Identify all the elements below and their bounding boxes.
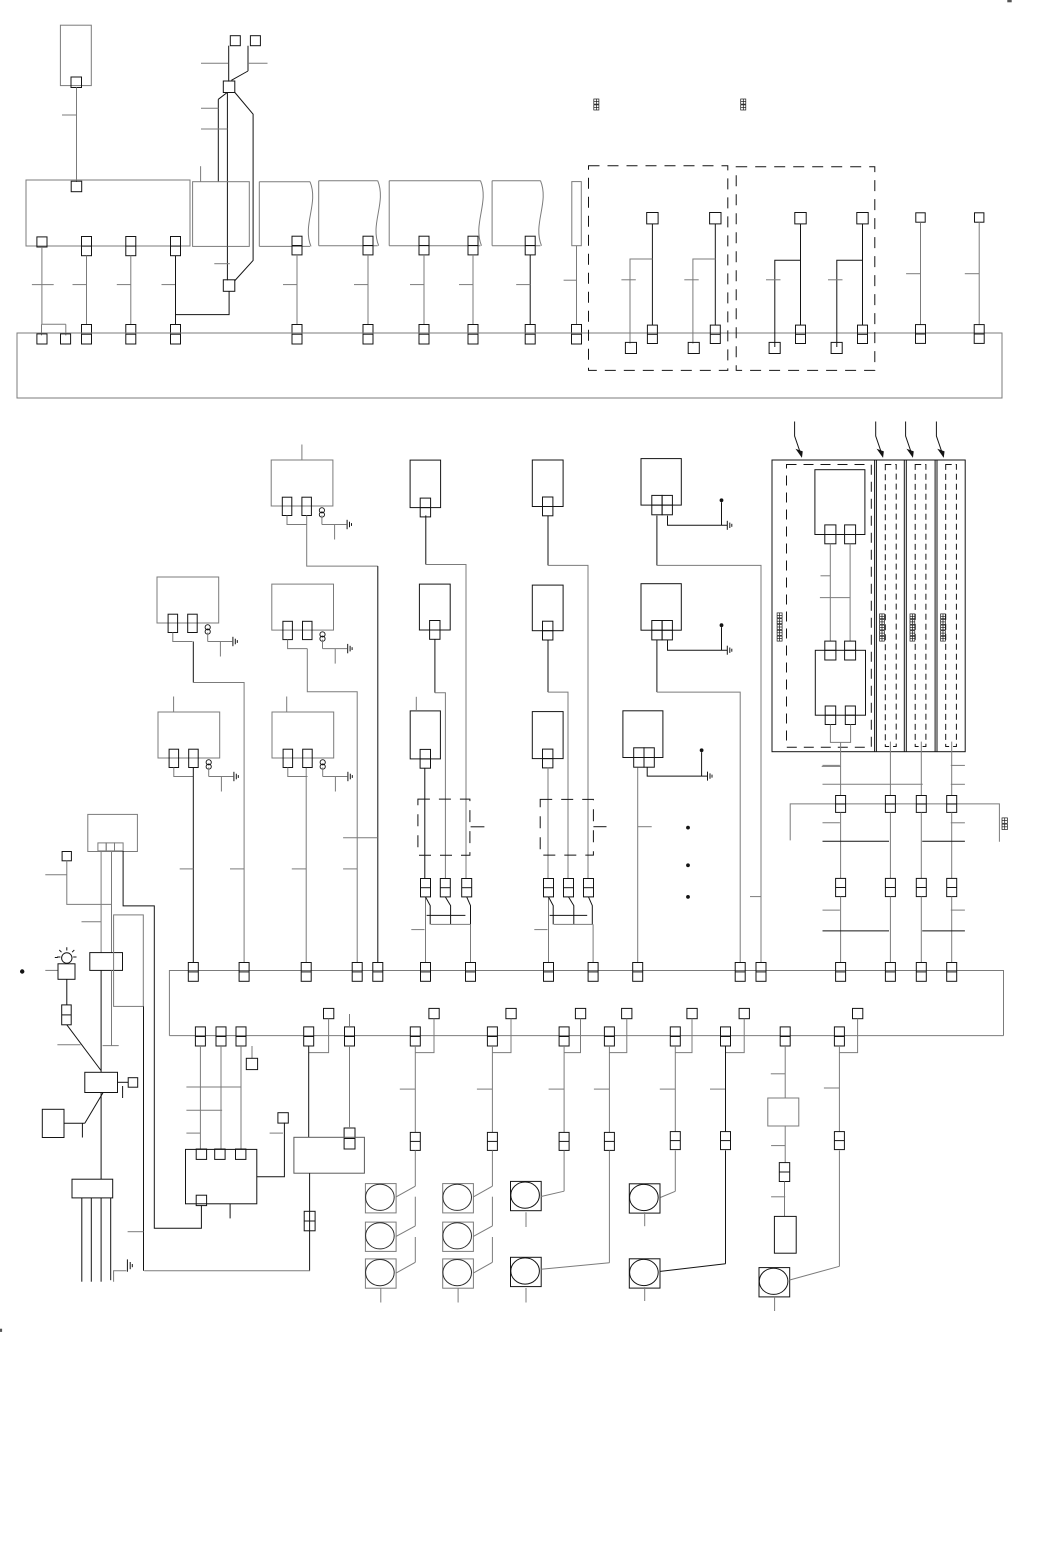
wire (550, 914, 588, 916)
box C1 (641, 459, 681, 506)
dot (700, 748, 704, 752)
label (741, 99, 746, 104)
terminal (126, 325, 136, 345)
wire (176, 291, 230, 314)
wire (491, 1150, 493, 1186)
breaker (584, 879, 594, 897)
wire (192, 768, 194, 963)
wire (349, 1014, 351, 1027)
wire (593, 826, 606, 828)
box panel6 (492, 180, 540, 182)
wire (175, 256, 177, 325)
terminal (215, 1149, 225, 1159)
motor M11 (759, 1268, 790, 1297)
terminal (831, 342, 842, 353)
wire (656, 516, 658, 566)
wire (220, 1046, 222, 1149)
terminal bus2 (188, 963, 198, 982)
terminal bus3 (216, 1027, 226, 1046)
terminal bus3 (604, 1027, 614, 1046)
divider (903, 460, 905, 752)
tick (828, 279, 843, 281)
wire (630, 259, 652, 344)
tick (459, 284, 473, 286)
terminal (363, 236, 373, 255)
terminal bus3 (721, 1027, 731, 1046)
tick (117, 284, 131, 286)
tick (549, 1088, 565, 1090)
terminal bus3 (559, 1027, 569, 1046)
bar (922, 930, 965, 932)
wire (837, 260, 863, 347)
wire (784, 1126, 786, 1163)
node tap (128, 1078, 138, 1088)
wire (492, 1019, 511, 1053)
wire (674, 1150, 676, 1191)
wire (66, 979, 68, 1005)
tick (180, 868, 194, 870)
label (1002, 818, 1007, 823)
box panel5 (389, 180, 480, 182)
wire (64, 1122, 85, 1124)
node tap (622, 1008, 632, 1018)
box cabinet (114, 915, 144, 1007)
box riser (572, 182, 582, 246)
box B1 (410, 460, 441, 508)
wire (554, 923, 593, 925)
transformer T2 (157, 577, 219, 623)
box unit lower (815, 650, 865, 715)
switch blade (473, 1262, 492, 1273)
motor (443, 1184, 474, 1213)
wire (414, 1046, 416, 1132)
wire (307, 649, 357, 963)
terminal (825, 525, 836, 544)
wire (110, 1198, 112, 1280)
box B5 (532, 585, 563, 631)
wire (721, 502, 723, 525)
wire (889, 812, 891, 878)
tick (400, 1088, 416, 1090)
terminal (468, 236, 478, 255)
node tap (251, 1046, 253, 1058)
tick (951, 783, 965, 785)
wire (467, 897, 471, 925)
tick (951, 909, 965, 911)
wire (193, 683, 244, 963)
label (910, 614, 915, 619)
terminal bus3 (410, 1027, 420, 1046)
terminal (825, 706, 836, 725)
wire (547, 767, 549, 878)
arrow (906, 422, 913, 457)
terminal bus3 (236, 1027, 246, 1046)
switch blade (396, 1186, 416, 1197)
terminal bus3 (487, 1027, 497, 1046)
tick (201, 128, 227, 130)
wire (424, 768, 426, 879)
motor M8 (511, 1257, 542, 1286)
wire (423, 255, 425, 325)
tick (343, 837, 378, 839)
terminal (836, 878, 846, 896)
terminal (858, 325, 868, 343)
tick (410, 284, 424, 286)
wire (564, 1019, 580, 1053)
terminal (98, 843, 106, 851)
wire (426, 565, 466, 879)
bus aux (790, 804, 999, 842)
bar (922, 840, 965, 842)
tick (750, 896, 761, 898)
terminal bus2 (735, 963, 745, 982)
terminal (710, 325, 720, 343)
tick (594, 1088, 610, 1090)
wire (491, 1046, 493, 1132)
terminal (795, 213, 806, 224)
box C2 (641, 584, 681, 631)
wire (308, 1046, 310, 1137)
tick (354, 284, 368, 286)
wire (380, 1288, 382, 1302)
wire (100, 1093, 102, 1180)
wire (217, 99, 219, 181)
motor M9 (629, 1184, 660, 1213)
wire (414, 1197, 416, 1226)
wire (111, 851, 113, 953)
wire (257, 1123, 285, 1177)
tick (162, 284, 176, 286)
terminal (796, 325, 806, 343)
terminal (857, 213, 868, 224)
terminal (292, 236, 302, 255)
wire (307, 515, 378, 566)
terminal (885, 878, 895, 896)
wire (701, 752, 703, 776)
motor (443, 1222, 474, 1251)
terminal (916, 796, 926, 813)
box B3 (410, 711, 440, 759)
node J2 (223, 280, 235, 292)
ground (114, 1271, 127, 1282)
wire (218, 93, 227, 100)
wire (657, 565, 761, 962)
tick (965, 273, 979, 275)
arrow (936, 422, 943, 457)
mark (1008, 0, 1011, 2)
wire (608, 1046, 610, 1132)
transformer T3 (272, 584, 334, 630)
breaker (559, 1132, 569, 1150)
bus main (17, 333, 1002, 398)
terminal bus2 (421, 963, 431, 982)
wire (100, 1198, 102, 1282)
terminal (885, 796, 895, 813)
wire (431, 923, 471, 925)
tick (821, 575, 831, 577)
wire (143, 1006, 145, 1270)
dot (686, 895, 690, 899)
terminal bus2 (301, 963, 311, 982)
wire (445, 897, 450, 925)
wire (434, 640, 436, 693)
wire (425, 897, 427, 963)
terminal bus2 (239, 963, 249, 982)
tick (951, 822, 965, 824)
tick (822, 765, 841, 767)
bus tertiary (169, 1035, 1003, 1037)
terminal bus2 (633, 963, 643, 982)
node tap (575, 1008, 585, 1018)
motor (365, 1184, 396, 1213)
dot (720, 498, 724, 502)
node tap (429, 1008, 439, 1018)
terminal bus2 (373, 963, 383, 982)
wire (309, 1173, 311, 1271)
bar (186, 1132, 200, 1134)
wire (472, 255, 474, 325)
wire (830, 725, 850, 743)
wire (414, 1237, 416, 1262)
node tap (853, 1008, 863, 1018)
wire (675, 1019, 692, 1053)
box dashed cubicle3 (915, 465, 926, 747)
label (941, 614, 946, 619)
wire (784, 1046, 786, 1098)
tick (906, 273, 920, 275)
wire (608, 1150, 610, 1262)
transformer T1 (271, 460, 333, 506)
switch blade (473, 1226, 492, 1237)
terminal (71, 77, 82, 88)
wire (951, 812, 953, 878)
terminal (974, 325, 984, 344)
tick (766, 279, 781, 281)
wire (569, 897, 574, 925)
wire (576, 246, 578, 325)
terminal bus2 (885, 963, 895, 982)
wire (725, 1150, 727, 1263)
tick (45, 969, 58, 971)
terminal (625, 342, 636, 353)
wire (67, 861, 112, 905)
transformer T5 (272, 712, 334, 758)
tick (534, 929, 547, 931)
wire (951, 742, 953, 796)
node tap (62, 852, 71, 861)
node tap (739, 1008, 749, 1018)
divider (874, 460, 876, 752)
box assembly (772, 460, 965, 752)
terminal (845, 641, 856, 660)
dot (20, 969, 24, 973)
breaker (440, 879, 450, 897)
terminal (845, 525, 856, 544)
tick (45, 874, 67, 876)
wire (231, 71, 248, 80)
wire (100, 970, 102, 1072)
terminal (572, 325, 582, 345)
wire (548, 692, 568, 878)
motor M10 (629, 1259, 660, 1288)
wire (656, 640, 658, 692)
wire (693, 259, 715, 344)
wire (235, 93, 254, 282)
box starter L5 (85, 1072, 118, 1092)
box dashedB (736, 167, 875, 371)
wire (226, 93, 228, 247)
node tap (506, 1008, 516, 1018)
terminal (825, 641, 836, 660)
wire (951, 897, 953, 963)
node tap (278, 1113, 288, 1123)
tick (230, 868, 244, 870)
tick (638, 826, 652, 828)
wire (592, 924, 594, 962)
wire (229, 1204, 231, 1219)
wire (647, 768, 707, 777)
tick (128, 1231, 144, 1233)
terminal (363, 325, 373, 345)
box (768, 1098, 799, 1126)
tick (820, 597, 850, 599)
box dashed cubicle2 (885, 465, 896, 747)
breaker (304, 1211, 315, 1231)
box dashedA (589, 166, 728, 371)
wire (471, 826, 485, 828)
ground (707, 772, 709, 781)
wire (563, 1150, 565, 1191)
wire (226, 246, 228, 280)
tick (214, 263, 230, 265)
tick (824, 1087, 840, 1089)
wire (668, 516, 728, 526)
switch blade (473, 1186, 492, 1197)
wire (67, 1025, 101, 1071)
breaker (344, 1128, 355, 1149)
wire (920, 812, 922, 878)
tick (823, 909, 840, 911)
tick (564, 279, 577, 281)
terminal bus3 (304, 1027, 314, 1046)
wire (978, 222, 980, 324)
terminal (106, 843, 114, 851)
box unit upper (815, 470, 865, 535)
wire (240, 1046, 242, 1149)
wire (81, 1198, 83, 1282)
breaker (779, 1163, 789, 1182)
box panel1 (26, 180, 190, 246)
tick (823, 764, 840, 766)
wire (840, 742, 842, 795)
wire (85, 1092, 103, 1123)
wire (800, 224, 802, 325)
breaker (62, 1005, 71, 1025)
breaker (421, 879, 431, 897)
terminal bus2 (916, 963, 926, 982)
box motorctrl (294, 1137, 365, 1173)
box dashedD1 (418, 799, 470, 855)
box B4 (532, 460, 563, 507)
wire (563, 1046, 565, 1132)
label (777, 613, 782, 618)
wire (829, 544, 831, 641)
wire (491, 1237, 493, 1262)
terminal (71, 181, 82, 192)
tick (771, 1073, 785, 1075)
terminal bus3 (780, 1027, 790, 1046)
wire (644, 1212, 646, 1226)
transformer T4 (158, 712, 220, 758)
tick (82, 921, 102, 923)
terminal (975, 213, 984, 222)
wire (81, 1123, 83, 1137)
wire (657, 692, 740, 962)
terminal bus2 (947, 963, 957, 982)
wire (427, 914, 466, 916)
wire (130, 256, 132, 325)
wire (609, 1019, 626, 1053)
wire (491, 1197, 493, 1226)
box dashedD2 (540, 799, 593, 855)
terminal (126, 237, 136, 256)
tick (283, 284, 297, 286)
tick (823, 822, 840, 824)
wire (199, 1046, 201, 1149)
wire (414, 1150, 416, 1186)
terminal (845, 706, 855, 725)
breaker (462, 879, 472, 897)
wire (349, 1046, 351, 1128)
terminal (916, 213, 925, 222)
terminal (82, 237, 92, 256)
wire (457, 1288, 459, 1302)
wire (42, 323, 66, 325)
wire (144, 1270, 310, 1272)
terminal (250, 36, 260, 46)
box B6 (532, 712, 563, 759)
wire (889, 742, 891, 796)
terminal bus2 (466, 963, 476, 982)
terminal (916, 325, 926, 344)
wire (668, 640, 728, 650)
wire (525, 1288, 527, 1303)
box dist L7 (72, 1179, 113, 1198)
wire (525, 1212, 527, 1227)
divider (934, 460, 936, 752)
wire (548, 565, 588, 878)
wire (41, 247, 43, 324)
box panel4 (319, 180, 378, 182)
breaker (410, 1132, 420, 1150)
terminal (647, 325, 657, 343)
wire (589, 897, 593, 925)
terminal (468, 325, 478, 345)
wire (548, 897, 550, 963)
wire (529, 255, 531, 325)
node J1 (223, 81, 235, 93)
tick (201, 62, 228, 64)
dot (686, 826, 690, 830)
box PT1 (60, 25, 91, 85)
wire (920, 222, 922, 324)
wire (118, 1081, 129, 1083)
breaker (604, 1132, 614, 1150)
terminal (525, 236, 535, 255)
terminal (236, 1149, 246, 1159)
tick (201, 107, 218, 109)
wire (111, 970, 113, 1045)
